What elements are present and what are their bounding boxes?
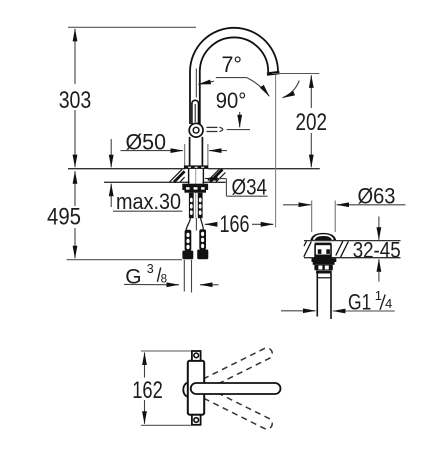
dashed handle arm up xyxy=(189,346,274,396)
svg-text:90°: 90° xyxy=(216,88,247,113)
dimension 162 xyxy=(132,353,163,424)
handle bar xyxy=(192,100,199,127)
svg-text:1: 1 xyxy=(375,288,382,303)
drain threaded collar xyxy=(314,265,332,270)
pivot circles xyxy=(189,123,203,137)
dimension 32-45 arrows xyxy=(378,217,380,240)
gooseneck spout outer arc xyxy=(190,28,278,73)
bottom reference line (hose end) xyxy=(67,259,183,261)
D63 label and leader xyxy=(283,184,406,209)
dimension D50 extension lines xyxy=(184,144,186,169)
hose end fittings xyxy=(182,251,193,260)
drain counter band xyxy=(304,240,401,242)
svg-text:4: 4 xyxy=(385,296,392,311)
dimension G1 1/4 xyxy=(281,288,395,315)
svg-text:3: 3 xyxy=(147,262,154,276)
D63 extension lines xyxy=(311,201,313,233)
dimension D50 label and leader xyxy=(121,130,228,155)
7 degree label xyxy=(198,52,247,84)
svg-text:32-45: 32-45 xyxy=(353,238,401,263)
spout centre line xyxy=(275,75,277,228)
top reference line xyxy=(68,26,196,28)
dashed handle arm down xyxy=(189,381,274,431)
drain stopper cap xyxy=(311,233,336,241)
tick lines 162 xyxy=(141,350,191,352)
svg-text:202: 202 xyxy=(296,109,328,136)
supply hoses xyxy=(185,230,192,251)
threaded tails xyxy=(189,193,194,219)
mounting nut xyxy=(182,184,208,190)
spout swivel arc left xyxy=(247,78,269,97)
drain counter hatching xyxy=(304,241,349,257)
hose thread tube xyxy=(183,260,185,292)
dimension 495 xyxy=(47,171,81,258)
svg-text:Ø63: Ø63 xyxy=(358,184,396,209)
svg-text:162: 162 xyxy=(132,377,163,404)
counter bottom line xyxy=(104,181,190,183)
drain tailpipe xyxy=(316,274,318,317)
top view body xyxy=(188,361,204,415)
faucet body cylinder xyxy=(189,137,191,166)
spout swivel arc right xyxy=(283,81,300,98)
svg-text:7°: 7° xyxy=(222,52,243,77)
svg-text:495: 495 xyxy=(47,204,81,231)
svg-text:Ø34: Ø34 xyxy=(232,174,268,199)
counter hatching right xyxy=(208,169,225,182)
svg-text:8: 8 xyxy=(161,273,167,285)
G 3/8 label xyxy=(124,262,219,288)
counter top line xyxy=(68,168,185,170)
gooseneck spout inner arc xyxy=(200,37,268,72)
svg-text:G1: G1 xyxy=(348,290,371,315)
svg-text:max.30: max.30 xyxy=(116,189,181,214)
aerator tip band xyxy=(267,71,280,76)
90 degree leader arrow xyxy=(239,112,241,127)
dimension 202 extension line xyxy=(272,73,319,75)
lever capsule xyxy=(191,383,281,394)
svg-text:166: 166 xyxy=(220,211,250,238)
left pipe xyxy=(189,71,191,124)
dimension max.30 xyxy=(111,139,182,214)
dashed open handle position xyxy=(207,127,223,131)
dimension 202 xyxy=(296,75,328,167)
drain body in counter xyxy=(315,243,332,245)
counter hatching left xyxy=(170,169,185,182)
side bump circle xyxy=(183,383,193,397)
base flange xyxy=(184,165,208,169)
dimension D34 xyxy=(205,174,268,199)
shank through counter xyxy=(188,169,190,184)
dimension 303 xyxy=(59,29,92,167)
hose connectors xyxy=(186,218,191,230)
drain locknut xyxy=(312,258,337,262)
svg-text:303: 303 xyxy=(59,87,92,114)
bottom tab xyxy=(192,415,201,425)
dimension 166 xyxy=(196,211,273,238)
handle reference line xyxy=(195,69,197,98)
top tab xyxy=(192,351,201,361)
